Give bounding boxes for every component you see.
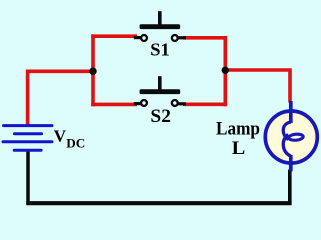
lamp filament upper arc <box>283 122 291 140</box>
wire: S2 right terminal to right branch <box>183 103 227 107</box>
switch S1 actuator stem <box>158 11 162 25</box>
svg-text:DC: DC <box>66 135 85 150</box>
wire: lamp bottom to return (black) <box>288 170 292 205</box>
battery VDC plate 4 (short, -) <box>14 149 41 152</box>
switch S1 right lead stub <box>178 36 186 39</box>
wire: battery negative lead (black) <box>26 151 30 205</box>
lamp L bulb circle <box>265 111 317 163</box>
switch S1 right terminal circle <box>172 35 178 41</box>
switch S2 button bar <box>140 89 181 94</box>
wire: top branch to S1 left terminal <box>91 34 137 38</box>
lamp bottom lead (blue) <box>289 155 293 171</box>
wire: right branch vertical <box>224 36 228 106</box>
switch S2 actuator stem <box>158 76 162 90</box>
node B (right junction dot) <box>222 67 229 74</box>
switch S2 left lead stub <box>134 102 141 105</box>
switch S2 right terminal circle <box>172 100 178 106</box>
wire: bottom branch to S2 left terminal <box>91 103 137 107</box>
switch S2 left terminal circle <box>141 100 147 106</box>
lamp filament loop <box>289 134 304 141</box>
switch S1 button bar <box>140 24 181 29</box>
wire: S1 right terminal to right branch <box>183 36 227 40</box>
battery VDC plate 2 (short) <box>15 132 42 135</box>
wire: left branch vertical (node A to S1/S2 rows) <box>91 34 95 106</box>
switch S1 left terminal circle <box>141 35 147 41</box>
svg-text:S1: S1 <box>150 40 170 60</box>
svg-text:V: V <box>54 127 67 146</box>
battery VDC plate 1 (long, +) <box>4 124 53 127</box>
lamp filament lower arc <box>283 134 291 156</box>
wire: bottom return (black) <box>26 201 291 205</box>
svg-text:S2: S2 <box>150 107 171 127</box>
switch S2 right lead stub <box>178 102 186 105</box>
switch S1 left lead stub <box>134 36 141 39</box>
svg-text:L: L <box>232 138 246 159</box>
wire: battery positive to left node <box>28 71 95 126</box>
battery VDC plate 3 (long) <box>3 140 52 143</box>
lamp top lead (blue) <box>289 101 293 123</box>
svg-text:Lamp: Lamp <box>216 118 260 139</box>
wire: right node to lamp top <box>225 70 290 103</box>
node A (left junction dot) <box>89 68 96 75</box>
